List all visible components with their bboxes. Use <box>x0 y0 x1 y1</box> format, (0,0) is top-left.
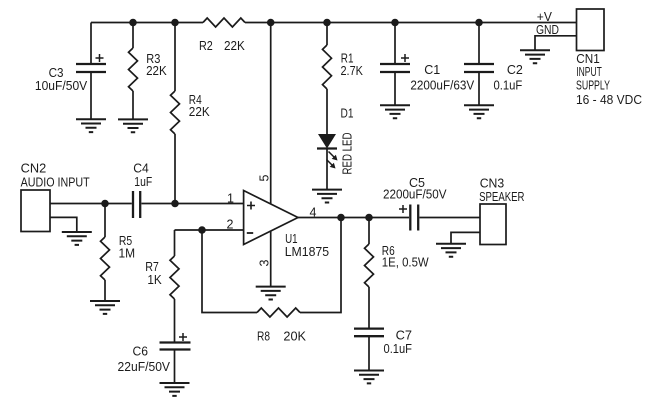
label R8 value <box>257 329 306 344</box>
svg-text:SPEAKER: SPEAKER <box>479 189 524 204</box>
resistor R8 <box>257 308 300 317</box>
label pin 3 <box>257 260 271 267</box>
svg-text:16 - 48 VDC: 16 - 48 VDC <box>576 92 642 107</box>
node (R4 bottom joins pin1 wire) <box>171 200 179 208</box>
svg-text:LM1875: LM1875 <box>285 244 329 259</box>
svg-text:0.1uF: 0.1uF <box>384 341 413 356</box>
label U1 <box>285 231 329 259</box>
svg-text:1uF: 1uF <box>134 174 152 189</box>
label C4 value <box>133 161 152 190</box>
wire node A rail (C3 to R2 left) <box>91 22 203 24</box>
node (R1 to rail) <box>323 19 331 27</box>
svg-text:R2: R2 <box>199 38 213 53</box>
resistor R2 <box>203 18 245 27</box>
svg-text:2.7K: 2.7K <box>341 63 364 78</box>
label R4 value <box>189 92 210 119</box>
node (R4 to rail) <box>171 19 179 27</box>
svg-text:D1: D1 <box>341 105 354 120</box>
ground (C7) <box>354 371 384 384</box>
svg-text:2200uF/63V: 2200uF/63V <box>410 78 474 93</box>
capacitor C1 <box>380 23 410 106</box>
label GND <box>536 22 559 37</box>
ground (R5) <box>90 301 120 314</box>
capacitor C6 <box>160 333 191 383</box>
svg-text:20K: 20K <box>283 329 306 344</box>
label CN1 <box>576 51 642 107</box>
label R6 value <box>382 243 430 269</box>
label R1 value <box>341 51 364 78</box>
svg-text:3: 3 <box>257 260 271 267</box>
svg-text:C1: C1 <box>424 62 440 77</box>
svg-text:10uF/50V: 10uF/50V <box>35 78 88 93</box>
capacitor C2 <box>464 23 494 106</box>
svg-text:22K: 22K <box>224 38 245 53</box>
resistor R1 <box>323 23 332 135</box>
label pin 1 <box>227 192 234 206</box>
node (C2 to rail) <box>475 19 483 27</box>
ground (CN2) <box>62 232 92 245</box>
node (feedback joins pin2 wire) <box>198 226 206 234</box>
node (R3 to rail) <box>129 19 137 27</box>
label C6 value <box>118 344 171 375</box>
resistor R4 <box>171 23 180 204</box>
node (R5 tap on input wire) <box>101 200 109 208</box>
svg-text:22uF/50V: 22uF/50V <box>118 359 171 374</box>
label pin 4 <box>310 206 317 220</box>
wire pin2 <box>175 229 244 231</box>
label D1 <box>341 105 354 120</box>
capacitor C4 <box>133 191 244 218</box>
wire feedback (output down to R8) <box>300 218 341 313</box>
label CN3 <box>479 176 524 205</box>
svg-text:1M: 1M <box>119 245 136 260</box>
label CN2 <box>21 161 90 190</box>
svg-text:C2: C2 <box>507 62 523 77</box>
label RED LED <box>340 133 355 175</box>
label R5 value <box>119 233 136 260</box>
svg-text:SUPPLY: SUPPLY <box>576 77 610 92</box>
wire CN2 ground pin <box>50 217 77 232</box>
node (R6 tap on output) <box>365 214 373 222</box>
label pin 2 <box>227 218 234 232</box>
label C5 value <box>383 175 447 202</box>
svg-text:2200uF/50V: 2200uF/50V <box>383 187 447 202</box>
svg-text:AUDIO INPUT: AUDIO INPUT <box>21 175 90 190</box>
svg-text:R8: R8 <box>257 329 270 344</box>
ground (pin3 / U1) <box>256 287 286 300</box>
wire pin3 <box>270 231 272 287</box>
wire output (pin4) <box>298 217 409 219</box>
svg-text:22K: 22K <box>146 63 167 78</box>
wire CN3 ground pin <box>451 232 480 243</box>
label C7 value <box>384 328 413 357</box>
svg-text:CN2: CN2 <box>21 161 47 176</box>
label +V <box>537 9 552 24</box>
svg-text:GND: GND <box>536 22 559 37</box>
svg-text:1: 1 <box>227 192 234 206</box>
ground (C6) <box>160 383 190 396</box>
label pin 5 <box>257 175 271 182</box>
connector CN2 <box>21 190 50 232</box>
svg-text:0.1uF: 0.1uF <box>494 78 523 93</box>
ground (CN1) <box>520 50 550 63</box>
node (feedback tap on output) <box>337 214 345 222</box>
wire feedback (R8 to pin2) <box>202 230 257 313</box>
label C3 value <box>35 65 88 93</box>
wire +V rail (R2 right to CN1) <box>245 22 577 24</box>
resistor R5 <box>101 204 110 302</box>
op-amp U1 <box>244 191 298 245</box>
node (pin5 to +V rail) <box>267 19 275 27</box>
label R2 value <box>199 38 245 53</box>
label C1 value <box>410 62 474 93</box>
ground (C2) <box>464 105 494 118</box>
wire CN2 signal to C4 <box>50 203 132 205</box>
svg-text:1K: 1K <box>147 272 162 287</box>
connector CN3 <box>480 204 506 245</box>
node (C1 to rail) <box>391 19 399 27</box>
svg-text:22K: 22K <box>189 104 210 119</box>
label R3 value <box>146 51 167 78</box>
svg-text:RED LED: RED LED <box>340 133 355 175</box>
wire GND pin of CN1 <box>535 36 577 51</box>
svg-text:1E, 0.5W: 1E, 0.5W <box>382 254 430 269</box>
ground (R3) <box>118 119 148 132</box>
label C2 value <box>494 62 523 93</box>
capacitor C3 <box>76 23 106 120</box>
ground (D1) <box>312 190 342 203</box>
ground (CN3) <box>436 244 466 257</box>
capacitor C7 <box>354 329 384 371</box>
resistor R3 <box>129 23 138 120</box>
capacitor C5 <box>399 205 480 231</box>
ground (C3) <box>76 119 106 132</box>
svg-text:5: 5 <box>257 175 271 182</box>
svg-text:C6: C6 <box>133 344 149 359</box>
ground (C1) <box>380 105 410 118</box>
resistor R7 <box>170 230 179 343</box>
connector CN1 <box>577 9 605 51</box>
label R7 value <box>145 259 162 287</box>
wire pin5 <box>270 23 272 205</box>
LED D1 <box>317 134 338 190</box>
resistor R6 <box>365 218 374 329</box>
svg-text:2: 2 <box>227 218 234 232</box>
